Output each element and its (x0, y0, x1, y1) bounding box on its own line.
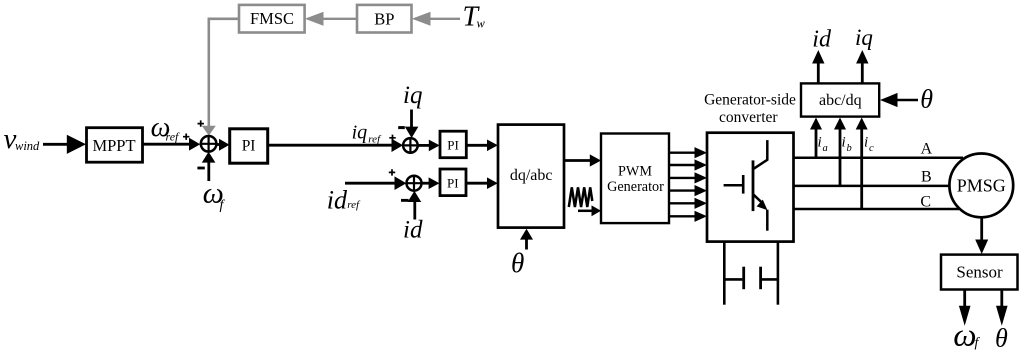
svg-text:ω: ω (953, 318, 976, 354)
wire carrier to PWM generator (578, 210, 592, 213)
wire phase B (794, 185, 952, 188)
svg-text:PWM: PWM (618, 164, 652, 180)
capacitor plate 1 (742, 267, 745, 290)
plus sign above S1 (198, 120, 204, 126)
wire S2 to PI2 (418, 144, 430, 147)
block dq/abc (498, 125, 564, 228)
wire theta input to abc/dq (897, 99, 918, 102)
wire id output (817, 62, 820, 83)
svg-text:PMSG: PMSG (957, 175, 1006, 195)
wire PWM output 4 (669, 189, 696, 191)
plus sign left of S3 (389, 169, 395, 175)
svg-text:id: id (403, 216, 423, 243)
plus sign left of S2 (389, 135, 395, 141)
svg-text:id: id (812, 27, 832, 53)
block Sensor (941, 255, 1018, 290)
capacitor plate 2 (759, 267, 762, 290)
wire PI1 to S2 (268, 144, 394, 147)
svg-text:θ: θ (995, 324, 1008, 353)
svg-text:iq: iq (352, 122, 368, 144)
wire Tw to BP (428, 18, 460, 20)
svg-text:Generator-side: Generator-side (704, 91, 796, 108)
wire MPPT to S1 (143, 143, 192, 146)
wire S1 to PI1 (216, 143, 221, 146)
wire gray FMSC to summing junction S1 (209, 19, 239, 127)
wire ic tap to abc/dq (860, 128, 863, 209)
wire id_ref to S3 (345, 182, 396, 185)
block PI3 (440, 169, 466, 196)
wire ia tap to abc/dq (815, 128, 818, 158)
wire v_wind to MPPT (43, 143, 68, 146)
svg-text:BP: BP (374, 9, 394, 28)
svg-text:ref: ref (166, 129, 181, 143)
svg-text:PI: PI (242, 138, 256, 155)
block BP (357, 5, 412, 33)
svg-text:converter: converter (719, 109, 778, 126)
svg-text:Sensor: Sensor (956, 262, 1003, 281)
IGBT body bar (752, 160, 755, 211)
wire BP to FMSC (321, 18, 357, 20)
summing junction S2 (403, 138, 418, 153)
svg-text:i: i (864, 135, 868, 151)
block FMSC (239, 5, 305, 33)
IGBT gate lead (724, 184, 742, 187)
svg-text:c: c (869, 143, 874, 154)
wire phase A (794, 156, 964, 159)
block PI1 (230, 129, 268, 163)
svg-text:iq: iq (855, 25, 873, 50)
svg-text:PI: PI (447, 175, 459, 190)
wire ib tap to abc/dq (839, 128, 842, 186)
svg-text:w: w (477, 16, 486, 30)
svg-text:B: B (921, 168, 932, 185)
block PWM Generator (601, 134, 669, 224)
block abc/dq (801, 83, 879, 116)
svg-text:Generator: Generator (607, 179, 664, 195)
svg-text:θ: θ (920, 85, 933, 114)
minus sign below S3 (401, 199, 409, 202)
wire PWM output 1 (669, 151, 696, 153)
svg-text:wind: wind (15, 139, 40, 153)
block PI2 (440, 131, 466, 158)
svg-text:abc/dq: abc/dq (819, 92, 862, 109)
svg-text:θ: θ (511, 248, 524, 278)
wire iq output (861, 62, 864, 83)
wire S3 to PI3 (422, 182, 432, 185)
block generator-side converter (707, 133, 794, 242)
svg-text:dq/abc: dq/abc (510, 167, 553, 184)
IGBT emitter lead with arrow (753, 194, 762, 203)
summing junction S3 (407, 176, 422, 191)
wire PWM output 6 (669, 215, 696, 217)
svg-text:A: A (921, 140, 933, 157)
wire PI3 to dq/abc (466, 182, 489, 185)
wire PWM output 2 (669, 164, 696, 166)
svg-text:ref: ref (347, 199, 361, 211)
plus sign left of S1 (183, 134, 189, 140)
minus sign left of iq arrow (398, 126, 405, 129)
svg-text:iq: iq (403, 82, 422, 109)
minus sign below S1 (197, 167, 204, 170)
capacitor wire left (724, 278, 742, 281)
wire Sensor output theta (1000, 290, 1003, 308)
wire PWM output 5 (669, 202, 696, 204)
svg-text:b: b (847, 143, 852, 154)
wire theta input to dq/abc (525, 239, 528, 250)
wire id input to S3 (413, 198, 416, 220)
svg-text:id: id (327, 185, 348, 214)
svg-text:a: a (823, 143, 828, 154)
svg-text:i: i (842, 135, 846, 151)
block MPPT (87, 128, 143, 163)
svg-text:i: i (818, 135, 822, 151)
svg-text:ref: ref (368, 134, 382, 146)
machine PMSG (949, 154, 1013, 218)
wire phase C (794, 208, 960, 211)
svg-text:PI: PI (447, 138, 459, 153)
summing junction S1 (201, 136, 217, 152)
wire dq/abc to PWM generator (564, 159, 592, 162)
carrier wave symbol (569, 187, 593, 207)
wire PMSG to Sensor (980, 217, 983, 240)
wire omega_f input to S1 (207, 162, 210, 182)
wire PI2 to dq/abc (466, 144, 489, 147)
svg-text:FMSC: FMSC (250, 9, 294, 28)
wire Sensor output omega_f (963, 290, 966, 308)
wire PWM output 3 (669, 177, 696, 179)
IGBT collector lead (753, 140, 767, 169)
IGBT gate plate (742, 175, 745, 194)
svg-text:C: C (920, 193, 931, 210)
wire iq input to S2 (410, 110, 413, 128)
DC link right leg (777, 242, 780, 305)
svg-text:MPPT: MPPT (92, 136, 135, 155)
capacitor wire right (762, 278, 778, 281)
DC link left leg (723, 242, 726, 305)
